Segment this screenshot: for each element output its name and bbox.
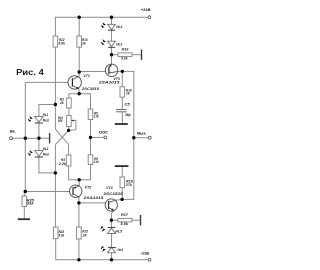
svg-text:3.3k: 3.3k (94, 159, 99, 164)
svg-text:2SA1015: 2SA1015 (98, 80, 121, 85)
wire top rail +21V (55, 17, 148, 36)
wire R24 bottom lead (68, 127, 70, 131)
LED HL1 triangle (35, 117, 44, 122)
svg-text:VT2: VT2 (85, 184, 93, 189)
svg-text:2k: 2k (81, 41, 86, 46)
svg-text:39p: 39p (125, 112, 131, 117)
wire R16 right lead to stub bar (132, 54, 141, 56)
svg-text:R16: R16 (122, 46, 130, 51)
node input column (24, 137, 27, 140)
node R25-VT2 base (24, 190, 27, 193)
svg-text:HL5: HL5 (115, 228, 122, 233)
wire node down to R15 (78, 203, 80, 227)
svg-text:VT1: VT1 (83, 73, 90, 78)
wire input column upper (24, 82, 26, 138)
wire VT3 collector to node (118, 70, 123, 72)
LED HL5 triangle (points up) (107, 228, 115, 233)
svg-text:HL6: HL6 (118, 247, 124, 252)
wire C5 to ground (121, 112, 123, 123)
wire R17 right lead to stub bar (132, 219, 140, 221)
svg-text:27k: 27k (125, 182, 132, 187)
node OOC (89, 136, 92, 139)
svg-text:2SA1015: 2SA1015 (83, 195, 105, 200)
svg-text:5.6k: 5.6k (121, 221, 129, 226)
LED HL3 cathode bar (108, 46, 115, 48)
wire VT1 collector to VT3 base (79, 71, 105, 73)
wire HL4 top lead (111, 17, 113, 24)
wire HL5-HL6 link (111, 234, 113, 248)
svg-text:C5: C5 (125, 101, 131, 106)
wire VT4 collector stub (115, 199, 122, 200)
wire R16 left lead (112, 54, 119, 56)
resistor R15 body (77, 227, 82, 239)
wire HL2 bottom branch to R22 column (39, 157, 56, 173)
LED HL6 emission arrows (101, 246, 106, 252)
LED HL3 triangle (108, 41, 116, 46)
resistor R1 body (67, 98, 72, 108)
wire HL3 to R16 node (111, 47, 113, 54)
transistor VT4 (2SC1815 NPN) (105, 199, 117, 211)
LED HL4 cathode bar (108, 29, 115, 31)
svg-text:Вых.: Вых. (137, 130, 147, 135)
node VT1 emitter (78, 92, 81, 95)
wire VT1 emitter stub (78, 89, 80, 94)
svg-text:2SC1815: 2SC1815 (102, 191, 123, 196)
LED HL3 emission arrows (101, 39, 106, 45)
LED HL2 triangle (35, 151, 44, 156)
wire R18 to C5 (121, 97, 123, 109)
node HL column input (37, 137, 40, 140)
svg-text:Red: Red (43, 118, 50, 123)
svg-text:ООС: ООС (99, 130, 108, 135)
wire HL6 to bottom rail (111, 253, 113, 260)
svg-text:HL3: HL3 (116, 41, 123, 46)
wire input from terminal (12, 137, 49, 139)
LED HL5 emission arrows (100, 226, 105, 232)
ground below R25 (18, 218, 30, 220)
stub bar right of R16 (141, 49, 143, 60)
LED HL5 cathode bar (108, 227, 116, 229)
svg-text:5.6k: 5.6k (59, 41, 66, 46)
wire R25 bottom to ground (23, 207, 25, 219)
node VT1 collector (78, 70, 81, 73)
svg-text:HL4: HL4 (116, 24, 123, 29)
terminal +21V (148, 16, 151, 19)
node rail-HL4 (110, 16, 113, 19)
wire R16 node to VT3 emitter (111, 55, 113, 64)
wire R25 top lead (23, 192, 25, 197)
wire R6 bottom bent lead to node (79, 165, 90, 180)
resistor R3 body (66, 155, 71, 166)
wire R18 top lead (121, 71, 123, 86)
wire OOC node to R6 (90, 137, 92, 154)
node VT4 collector (120, 198, 123, 201)
svg-text:Вх.: Вх. (10, 128, 16, 133)
stub bar right of input node (49, 133, 51, 143)
transistor VT1 (2SC1815 NPN) (68, 76, 81, 89)
wire output column lower (122, 138, 134, 200)
wire X crossing right-to-left diagonal (55, 130, 68, 144)
wire VT4 emitter bend (111, 210, 114, 220)
capacitor C5 plates (116, 110, 127, 112)
wire input column lower (24, 138, 26, 191)
resistor R13 body (77, 36, 82, 47)
LED HL4 triangle (108, 24, 116, 29)
wire VT3 collector node to output column (122, 71, 134, 137)
wire R22 bottom to X crossing (54, 47, 56, 129)
wire X bottom-right down to R3 (68, 145, 70, 155)
wire ground to R19 (121, 167, 123, 177)
wire R13 bottom lead (78, 47, 80, 72)
wire VT2 base (25, 191, 69, 193)
wire R3 bottom bent lead to node (69, 166, 80, 180)
wire R19 bottom lead (121, 188, 123, 200)
node VT2 emitter (77, 201, 80, 204)
stub bar right of R17 (140, 215, 142, 225)
wire VT2 emitter stub (78, 197, 80, 203)
resistor R18 body (120, 87, 125, 97)
wire R13 top lead (78, 17, 80, 36)
node rail-HL6 (110, 258, 113, 261)
node R3-R6-VT2 (78, 178, 81, 181)
wire VT1 base (25, 81, 68, 83)
transistor VT2 (2SA1015 PNP) (70, 185, 82, 197)
svg-text:2.2k: 2.2k (58, 161, 67, 166)
transistor VT3 (2SA1015 PNP) (105, 64, 117, 76)
terminal -21V (148, 258, 151, 261)
LED HL4 emission arrows (101, 22, 106, 28)
svg-text:500: 500 (58, 118, 63, 123)
resistor R23 body (53, 227, 58, 239)
svg-text:5.6k: 5.6k (121, 56, 128, 61)
resistor R16 body (horizontal) (118, 53, 132, 57)
svg-text:R17: R17 (121, 212, 129, 217)
ground above R19 (115, 165, 129, 167)
wire VT1 collector node to R13 (78, 72, 80, 76)
node R24 wiper (67, 129, 70, 132)
wire HL1 top branch (39, 105, 56, 117)
svg-text:-21В: -21В (141, 250, 150, 255)
resistor R5 body (88, 109, 93, 120)
wire R23 bottom lead (55, 239, 57, 260)
resistor R24 body (67, 116, 72, 127)
resistor R6 body (88, 155, 93, 165)
LED HL2 emission arrows (28, 150, 33, 156)
wire R17 left lead (111, 219, 118, 221)
svg-text:5.6k: 5.6k (59, 232, 65, 237)
resistor R25 body (22, 196, 27, 207)
svg-text:33k: 33k (27, 201, 35, 206)
wire R17 node down to HL5 (110, 220, 112, 227)
node R22-HL1 branch (54, 103, 57, 106)
wire output to Vyh terminal (134, 137, 149, 139)
svg-text:3.3k: 3.3k (94, 113, 99, 118)
wire emitter rail y94 (69, 94, 91, 109)
svg-text:VT4: VT4 (106, 185, 113, 190)
svg-text:Red: Red (43, 152, 50, 157)
wire X bottom-left down to R23 (54, 145, 56, 227)
svg-text:2k: 2k (82, 233, 88, 238)
svg-text:2k: 2k (59, 100, 64, 105)
svg-text:2SC1815: 2SC1815 (81, 86, 100, 91)
LED HL1 emission arrows (28, 116, 33, 122)
node rail-R15 (77, 258, 80, 261)
svg-text:Рис. 4: Рис. 4 (16, 67, 44, 77)
wire R5 bottom to OOC node (90, 120, 92, 138)
svg-text:+21В: +21В (141, 7, 151, 12)
node R16/VT3 emitter (110, 53, 113, 56)
node rail-R13 (78, 16, 81, 19)
LED HL6 triangle (points up) (107, 247, 115, 252)
wire VT2 emitter to VT4 base (79, 202, 105, 204)
node R17/VT4 emitter (110, 219, 113, 222)
svg-text:HL2: HL2 (43, 146, 49, 151)
wire R1 to R24 (68, 108, 70, 116)
terminal OOC (104, 136, 107, 139)
wire R15 bottom lead (78, 239, 80, 260)
wire HL4-HL3 link (111, 30, 113, 41)
trimmer R24 wiper arrowhead (71, 120, 74, 122)
resistor R17 body (horizontal) (118, 218, 132, 222)
LED HL1 cathode bar (35, 122, 43, 124)
resistor R19 body (120, 177, 125, 188)
resistor R22 body (53, 36, 58, 47)
node output (132, 136, 135, 139)
svg-text:HL1: HL1 (43, 112, 49, 117)
ground below C5 (115, 123, 128, 125)
wire X crossing left-to-right diagonal (55, 129, 68, 144)
terminal output Vyh (148, 136, 151, 139)
node HL2 branch (54, 171, 57, 174)
wire VT2 collector stub (78, 180, 80, 186)
wire R24 wiper rheostat link (70, 121, 76, 131)
wire OOC tap (91, 136, 105, 138)
wire bottom rail -21V (56, 259, 149, 261)
wire HL1 bottom to input node (38, 123, 40, 151)
terminal input Vh (10, 137, 13, 140)
LED HL6 cathode bar (108, 247, 116, 249)
node VT3 collector (121, 70, 124, 73)
LED HL2 cathode bar (35, 156, 43, 158)
